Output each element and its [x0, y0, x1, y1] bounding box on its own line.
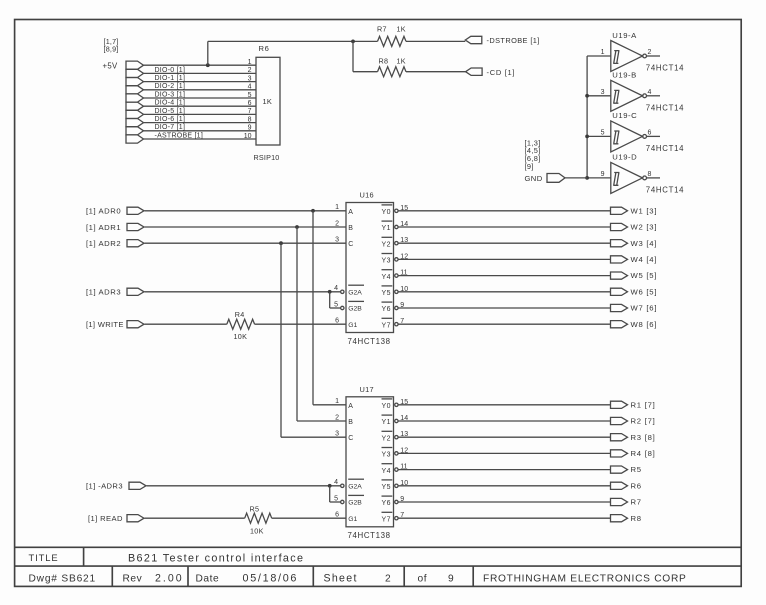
svg-text:G1: G1	[348, 516, 357, 523]
IC U17 74HCT138	[335, 385, 393, 540]
off-page connector -CD [1]	[466, 68, 516, 77]
svg-text:Y1: Y1	[382, 225, 392, 232]
junction R7/R8 branch	[351, 40, 355, 44]
GND input bus for U19	[585, 56, 589, 180]
svg-text:6: 6	[335, 512, 339, 519]
wire ADR2 to U16 pin 3	[145, 237, 347, 244]
svg-text:A: A	[348, 403, 353, 410]
svg-text:8: 8	[248, 116, 252, 123]
svg-text:5: 5	[334, 495, 338, 502]
off-page connector R7	[611, 498, 642, 507]
svg-text:74HCT14: 74HCT14	[646, 144, 684, 153]
svg-text:15: 15	[400, 205, 408, 212]
svg-text:10K: 10K	[250, 527, 264, 536]
svg-text:B621 Tester control interface: B621 Tester control interface	[128, 552, 304, 564]
svg-text:B: B	[348, 419, 353, 426]
svg-text:Y7: Y7	[382, 322, 392, 329]
off-page connector W3 [4]	[611, 239, 658, 248]
svg-text:DIO-7 [1]: DIO-7 [1]	[155, 124, 186, 131]
svg-text:R8: R8	[379, 57, 389, 66]
svg-text:9: 9	[448, 573, 454, 584]
svg-text:4: 4	[334, 479, 338, 486]
wire pin 10 of R6	[144, 132, 257, 139]
svg-text:Y4: Y4	[382, 274, 392, 281]
svg-text:[1] ADR0: [1] ADR0	[86, 207, 121, 216]
svg-text:G2A: G2A	[348, 289, 362, 296]
svg-text:[9]: [9]	[525, 162, 534, 171]
wire pin 7 of R6	[144, 108, 257, 115]
ground GND flag	[525, 174, 588, 184]
svg-text:R2 [7]: R2 [7]	[631, 417, 656, 426]
svg-text:G1: G1	[348, 322, 357, 329]
resistor R7 1K	[377, 24, 406, 46]
svg-text:12: 12	[400, 253, 408, 260]
title block	[15, 547, 742, 586]
svg-text:Y2: Y2	[382, 435, 392, 442]
wire branch down to R8	[353, 41, 378, 71]
off-page connector R6	[611, 481, 642, 490]
svg-text:74HCT14: 74HCT14	[646, 186, 684, 195]
svg-text:6: 6	[248, 100, 252, 107]
svg-text:W4 [4]: W4 [4]	[631, 255, 658, 264]
svg-text:13: 13	[400, 237, 408, 244]
svg-text:R5: R5	[631, 465, 642, 474]
svg-text:2: 2	[248, 67, 252, 74]
svg-text:W3 [4]: W3 [4]	[631, 239, 658, 248]
svg-text:13: 13	[400, 431, 408, 438]
svg-text:U19-D: U19-D	[612, 153, 637, 162]
svg-text:74HCT138: 74HCT138	[348, 337, 391, 346]
svg-text:GND: GND	[525, 174, 543, 183]
svg-text:[1] READ: [1] READ	[88, 514, 123, 523]
svg-text:[1] ADR1: [1] ADR1	[86, 223, 121, 232]
svg-text:W2 [3]: W2 [3]	[631, 223, 658, 232]
input flag [1] READ	[88, 514, 144, 523]
svg-text:R6: R6	[631, 481, 642, 490]
wire pin 3 of R6	[144, 75, 257, 82]
wire U16 Y6 output to W7 [6]	[395, 302, 611, 310]
off-page connector W7 [6]	[611, 304, 658, 313]
note [1,7] [8,9]	[104, 37, 119, 54]
input flag [1] ADR1	[86, 223, 144, 232]
svg-text:3: 3	[248, 75, 252, 82]
svg-text:DIO-5 [1]: DIO-5 [1]	[155, 108, 186, 115]
svg-text:Y7: Y7	[382, 516, 392, 523]
svg-text:R8: R8	[631, 514, 642, 523]
svg-text:[8,9]: [8,9]	[104, 45, 119, 54]
svg-text:R7: R7	[377, 24, 387, 33]
off-page connector R1 [7]	[611, 400, 656, 409]
svg-text:10: 10	[400, 286, 408, 293]
svg-text:10: 10	[400, 480, 408, 487]
svg-text:2: 2	[335, 414, 339, 421]
svg-text:-DSTROBE [1]: -DSTROBE [1]	[487, 36, 540, 45]
svg-text:05/18/06: 05/18/06	[243, 572, 299, 584]
svg-text:2: 2	[385, 573, 391, 584]
wire U16 Y4 output to W5 [5]	[395, 270, 611, 278]
+5V net label	[103, 61, 118, 70]
wire pin 4 of R6	[144, 83, 257, 90]
resistor R5 10K on READ line	[145, 504, 347, 535]
wire U17 Y0 output to R1 [7]	[395, 399, 611, 407]
input flag [1] ADR0	[86, 207, 144, 216]
resistor network R6 (RSIP10, 1K)	[254, 44, 281, 162]
off-page connector W5 [5]	[611, 271, 658, 280]
svg-text:Y4: Y4	[382, 468, 392, 475]
input flag [1] WRITE	[86, 320, 144, 329]
svg-text:U19-A: U19-A	[612, 31, 637, 40]
wire pin 1 of R6	[144, 59, 257, 66]
svg-text:Y0: Y0	[382, 403, 392, 410]
svg-text:B: B	[348, 225, 353, 232]
svg-text:3: 3	[335, 237, 339, 244]
svg-text:9: 9	[248, 125, 252, 132]
resistor R8 1K	[378, 57, 407, 77]
svg-text:2: 2	[335, 220, 339, 227]
svg-text:1: 1	[248, 59, 252, 66]
svg-text:W1 [3]: W1 [3]	[631, 206, 658, 215]
wire from pin1 up to R7/R8 branch	[208, 41, 378, 65]
off-page connector W8 [6]	[611, 320, 658, 329]
svg-text:74HCT14: 74HCT14	[646, 103, 684, 112]
svg-text:R4 [8]: R4 [8]	[631, 449, 656, 458]
op-amp/inverter U19-B 74HCT14	[587, 71, 684, 113]
input flag [1] ADR3	[86, 288, 144, 297]
svg-text:5: 5	[248, 92, 252, 99]
svg-text:74HCT14: 74HCT14	[646, 64, 684, 73]
svg-text:1K: 1K	[263, 97, 273, 106]
svg-text:+5V: +5V	[103, 61, 118, 70]
svg-text:3: 3	[335, 431, 339, 438]
svg-text:G2B: G2B	[348, 306, 362, 313]
svg-text:Sheet: Sheet	[324, 572, 358, 584]
wire pin 8 of R6	[144, 116, 257, 123]
svg-text:Y2: Y2	[382, 241, 392, 248]
off-page connector W2 [3]	[611, 223, 658, 232]
svg-text:FROTHINGHAM ELECTRONICS CORP: FROTHINGHAM ELECTRONICS CORP	[483, 573, 687, 584]
svg-text:-CD [1]: -CD [1]	[487, 68, 516, 77]
svg-text:15: 15	[400, 399, 408, 406]
input flag [1] -ADR3	[86, 482, 146, 491]
wire ADR3 to U16 G2A/G2B	[145, 285, 341, 308]
svg-text:of: of	[418, 573, 428, 584]
off-page connector R5	[611, 465, 642, 474]
wire U16 Y7 output to W8 [6]	[395, 318, 611, 326]
wire U17 Y2 output to R3 [8]	[395, 431, 611, 439]
svg-text:Y6: Y6	[382, 500, 392, 507]
input flag [1] ADR2	[86, 239, 144, 248]
off-page connector R2 [7]	[611, 417, 656, 426]
wire U17 Y1 output to R2 [7]	[395, 415, 611, 423]
svg-text:4: 4	[334, 285, 338, 292]
wire ADR0 to U16 pin 1	[145, 204, 347, 211]
svg-text:Y3: Y3	[382, 258, 392, 265]
svg-text:R7: R7	[631, 498, 642, 507]
off-page connector W6 [5]	[611, 287, 658, 296]
svg-text:14: 14	[400, 221, 408, 228]
svg-text:10: 10	[244, 133, 252, 140]
svg-text:U19-B: U19-B	[612, 71, 637, 80]
svg-text:5: 5	[334, 301, 338, 308]
wire U16 Y2 output to W3 [4]	[395, 237, 611, 245]
svg-text:C: C	[348, 435, 353, 442]
wire pin 2 of R6	[144, 67, 257, 74]
svg-text:3: 3	[601, 89, 605, 96]
wire U16 Y5 output to W6 [5]	[395, 286, 611, 294]
svg-text:1: 1	[335, 204, 339, 211]
wire U17 Y5 output to R6	[395, 480, 611, 488]
svg-text:Rev: Rev	[123, 573, 143, 584]
svg-text:DIO-2 [1]: DIO-2 [1]	[155, 83, 186, 90]
svg-text:U19-C: U19-C	[612, 111, 637, 120]
svg-text:RSIP10: RSIP10	[254, 153, 280, 162]
svg-text:14: 14	[400, 415, 408, 422]
off-page connector W4 [4]	[611, 255, 658, 264]
junction on pin 1 wire	[206, 63, 210, 67]
+5V multi-wire connector comb	[126, 61, 144, 143]
svg-text:A: A	[348, 209, 353, 216]
svg-text:1: 1	[335, 398, 339, 405]
svg-text:5: 5	[601, 130, 605, 137]
off-page connector W1 [3]	[611, 206, 658, 215]
svg-text:Date: Date	[196, 573, 220, 584]
svg-text:1: 1	[601, 49, 605, 56]
wire U16 Y0 output to W1 [3]	[395, 205, 611, 213]
svg-text:4: 4	[248, 84, 252, 91]
svg-text:U16: U16	[360, 191, 374, 200]
svg-text:6: 6	[648, 130, 652, 137]
wire -ADR3 to U17 G2A/G2B	[147, 479, 341, 502]
op-amp/inverter U19-A 74HCT14	[587, 31, 684, 73]
svg-text:DIO-6 [1]: DIO-6 [1]	[155, 116, 186, 123]
svg-text:74HCT138: 74HCT138	[348, 531, 391, 540]
svg-text:12: 12	[400, 447, 408, 454]
svg-text:9: 9	[400, 496, 404, 503]
wire R7 to -DSTROBE	[406, 40, 465, 42]
off-page connector -DSTROBE [1]	[465, 36, 539, 45]
svg-text:W6 [5]: W6 [5]	[631, 287, 658, 296]
wire U17 Y7 output to R8	[395, 512, 611, 520]
svg-text:[1] ADR3: [1] ADR3	[86, 288, 121, 297]
wire U17 Y4 output to R5	[395, 464, 611, 472]
svg-text:G2B: G2B	[348, 500, 362, 507]
svg-text:7: 7	[400, 512, 404, 519]
svg-text:9: 9	[400, 302, 404, 309]
svg-text:Y5: Y5	[382, 290, 392, 297]
wire pin 5 of R6	[144, 91, 257, 98]
wire pin 6 of R6	[144, 100, 257, 107]
svg-text:Y5: Y5	[382, 484, 392, 491]
off-page connector R3 [8]	[611, 433, 656, 442]
svg-text:Y3: Y3	[382, 452, 392, 459]
svg-text:C: C	[348, 241, 353, 248]
resistor R4 10K on WRITE line	[145, 310, 347, 341]
svg-text:W5 [5]: W5 [5]	[631, 271, 658, 280]
svg-text:2.00: 2.00	[155, 572, 184, 584]
svg-text:DIO-4 [1]: DIO-4 [1]	[155, 100, 186, 107]
svg-text:-ASTROBE [1]: -ASTROBE [1]	[155, 132, 204, 139]
svg-text:DIO-1 [1]: DIO-1 [1]	[155, 75, 186, 82]
IC U16 74HCT138	[341, 191, 394, 346]
wire ADR1 to U16 pin 2	[145, 220, 347, 227]
svg-text:R5: R5	[250, 504, 260, 513]
svg-text:8: 8	[648, 171, 652, 178]
svg-text:Dwg# SB621: Dwg# SB621	[29, 573, 96, 584]
svg-text:Y6: Y6	[382, 306, 392, 313]
svg-text:7: 7	[400, 318, 404, 325]
svg-text:W7 [6]: W7 [6]	[631, 304, 658, 313]
svg-text:G2A: G2A	[348, 483, 362, 490]
svg-text:4: 4	[648, 89, 652, 96]
svg-text:R1 [7]: R1 [7]	[631, 400, 656, 409]
off-page connector R4 [8]	[611, 449, 656, 458]
svg-text:DIO-0 [1]: DIO-0 [1]	[155, 67, 186, 74]
note [1,3] [4,5] [6,8] [9]	[525, 138, 541, 170]
bus ADR2 down to U17	[279, 241, 346, 437]
svg-text:[1] -ADR3: [1] -ADR3	[86, 482, 123, 491]
wire U17 Y6 output to R7	[395, 496, 611, 504]
wire U17 Y3 output to R4 [8]	[395, 447, 611, 455]
svg-text:R6: R6	[259, 44, 270, 53]
svg-text:U17: U17	[360, 385, 374, 394]
svg-text:9: 9	[601, 171, 605, 178]
off-page connector R8	[611, 514, 642, 523]
svg-text:1K: 1K	[397, 24, 406, 33]
op-amp/inverter U19-C 74HCT14	[587, 111, 684, 153]
svg-text:1K: 1K	[397, 57, 406, 66]
svg-text:2: 2	[648, 49, 652, 56]
wire U16 Y1 output to W2 [3]	[395, 221, 611, 229]
wire U16 Y3 output to W4 [4]	[395, 253, 611, 261]
svg-text:W8 [6]: W8 [6]	[631, 320, 658, 329]
svg-text:7: 7	[248, 108, 252, 115]
svg-text:10K: 10K	[234, 332, 248, 341]
svg-text:[1] WRITE: [1] WRITE	[86, 320, 124, 329]
svg-text:11: 11	[400, 270, 407, 277]
svg-text:R4: R4	[235, 310, 245, 319]
svg-text:DIO-3 [1]: DIO-3 [1]	[155, 91, 186, 98]
bus ADR1 down to U17	[295, 225, 346, 421]
svg-text:Y1: Y1	[382, 419, 392, 426]
svg-text:TITLE: TITLE	[29, 552, 59, 563]
svg-text:R3 [8]: R3 [8]	[631, 433, 656, 442]
svg-text:[1] ADR2: [1] ADR2	[86, 239, 121, 248]
svg-text:6: 6	[335, 318, 339, 325]
svg-text:Y0: Y0	[382, 209, 392, 216]
wire pin 9 of R6	[144, 124, 257, 131]
op-amp/inverter U19-D 74HCT14	[587, 153, 684, 195]
svg-text:11: 11	[400, 464, 407, 471]
wire R8 to -CD	[406, 71, 466, 73]
bus ADR0 down to U17	[311, 209, 346, 405]
